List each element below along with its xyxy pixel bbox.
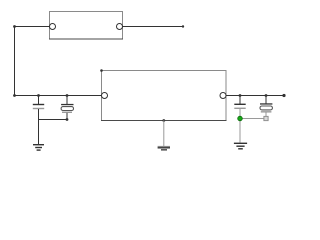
node U2 origin corner	[100, 69, 103, 72]
junction C1 top	[37, 94, 40, 97]
capacitor C2 (electrolytic)	[61, 96, 73, 120]
junction C3 top	[239, 94, 242, 97]
node corner left-bottom	[13, 94, 16, 97]
ground G3	[234, 143, 247, 150]
wire output rail	[226, 95, 284, 97]
node wire end right	[282, 94, 285, 97]
wire left vertical	[14, 27, 16, 96]
node wire end top-right	[182, 25, 184, 27]
node corner top-left	[13, 25, 16, 28]
component U2 body (regulator box)	[101, 71, 227, 121]
wire input rail	[15, 95, 102, 97]
wire top-right horizontal	[123, 26, 184, 28]
ground G2	[158, 146, 170, 151]
wire C2 bottom to C1 leg	[39, 119, 68, 121]
capacitor C3	[234, 96, 245, 143]
capacitor C1	[33, 96, 44, 145]
pin circle U2 output	[220, 93, 226, 99]
wire U2 ground lead	[163, 121, 165, 147]
pin circle U2 input	[102, 93, 108, 99]
junction C2 top	[66, 94, 69, 97]
component U1 body (top box)	[49, 12, 123, 40]
ground G1	[33, 144, 44, 151]
node U2 ground pin	[162, 119, 165, 122]
wire top-left horizontal	[15, 26, 50, 28]
node corner C2 bottom	[66, 118, 69, 121]
pin circle U1 pin 1	[50, 24, 56, 30]
junction C4 top	[265, 94, 268, 97]
capacitor C4 (electrolytic)	[260, 96, 272, 117]
node C4 terminal square	[264, 116, 268, 120]
pin circle U1 pin 2	[117, 24, 123, 30]
wire green-node to C4 square	[240, 118, 264, 120]
node green junction	[238, 116, 243, 121]
